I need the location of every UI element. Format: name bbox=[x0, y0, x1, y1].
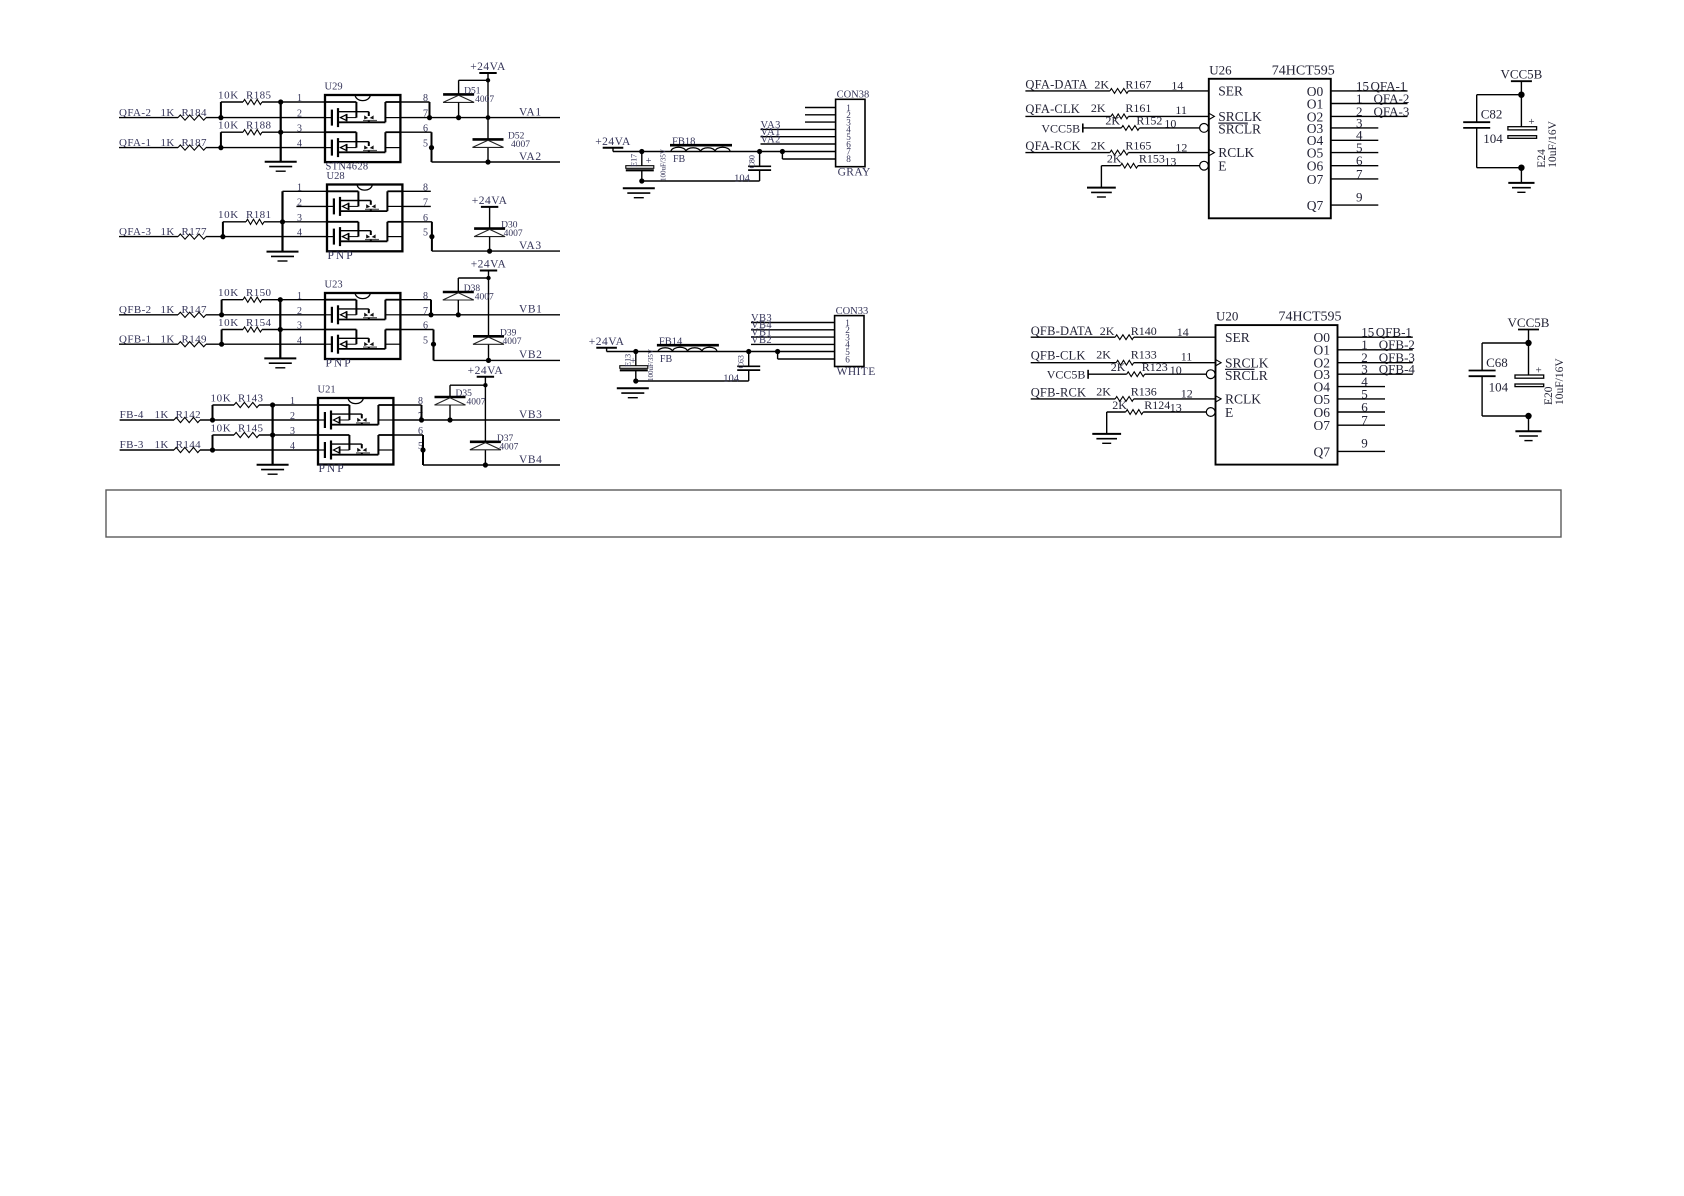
svg-text:4: 4 bbox=[290, 441, 295, 452]
svg-text:+24VA: +24VA bbox=[589, 336, 625, 348]
svg-text:2K: 2K bbox=[1094, 78, 1109, 92]
wire +24VA rail bbox=[488, 271, 490, 337]
svg-text:10uF/16V: 10uF/16V bbox=[1554, 358, 1566, 405]
svg-text:R123: R123 bbox=[1142, 360, 1168, 374]
ground bbox=[265, 161, 297, 163]
wire branch to upper diode bbox=[459, 79, 488, 81]
svg-text:2: 2 bbox=[297, 198, 302, 209]
svg-text:E17: E17 bbox=[629, 154, 638, 167]
svg-text:4007: 4007 bbox=[499, 442, 518, 452]
svg-text:R143: R143 bbox=[238, 392, 264, 404]
inverter bubble SRCLR bbox=[1200, 124, 1209, 133]
svg-text:3: 3 bbox=[297, 321, 302, 332]
svg-text:+24VA: +24VA bbox=[471, 259, 507, 271]
capacitor E13 100uF/35V electrolytic bbox=[635, 352, 637, 366]
svg-text:R187: R187 bbox=[182, 137, 208, 149]
wire main bbox=[613, 151, 836, 153]
junction bbox=[639, 178, 644, 183]
wire pin6 stub bbox=[393, 434, 423, 436]
svg-text:11: 11 bbox=[1181, 349, 1193, 363]
svg-text:R165: R165 bbox=[1125, 138, 1151, 152]
diode D30 bbox=[474, 227, 505, 230]
resistor R184 1K bbox=[119, 117, 178, 119]
capacitor C63 104 bbox=[746, 349, 751, 354]
wire riser bbox=[221, 330, 223, 345]
inverter bubble E bbox=[1200, 161, 1209, 170]
wire diode to output bbox=[449, 405, 451, 420]
junction bbox=[1525, 340, 1531, 346]
capacitor C68 104 bbox=[1482, 342, 1528, 344]
wire pin8 stub bbox=[400, 299, 431, 301]
ground bbox=[617, 387, 649, 389]
svg-text:R184: R184 bbox=[182, 107, 208, 119]
wire bottom bbox=[1477, 167, 1522, 169]
junction bbox=[280, 219, 285, 224]
mosfet channel internals bbox=[318, 404, 349, 406]
svg-text:1: 1 bbox=[297, 182, 302, 193]
svg-text:E: E bbox=[1218, 159, 1226, 174]
ground bbox=[1087, 187, 1116, 189]
svg-text:10K: 10K bbox=[211, 422, 232, 434]
svg-text:4007: 4007 bbox=[503, 337, 522, 347]
wire riser bbox=[220, 102, 222, 118]
svg-text:VB1: VB1 bbox=[519, 304, 543, 316]
wire bbox=[1338, 336, 1413, 338]
svg-text:R167: R167 bbox=[1125, 78, 1151, 92]
resistor R177 1K bbox=[119, 236, 178, 238]
ground bus bbox=[280, 102, 282, 162]
svg-text:2: 2 bbox=[297, 109, 302, 120]
junction bbox=[219, 342, 224, 347]
junction bbox=[639, 149, 644, 154]
junction bbox=[220, 234, 225, 239]
wire pin8 stub bbox=[402, 190, 430, 192]
mosfet channel internals bbox=[325, 101, 356, 103]
IC body U21 bbox=[318, 398, 393, 465]
junction bbox=[633, 378, 638, 383]
wire drop to lower output bbox=[431, 148, 433, 162]
mosfet channel internals bbox=[318, 434, 349, 436]
svg-text:10K: 10K bbox=[218, 287, 239, 299]
junction bbox=[219, 312, 224, 317]
junction bbox=[278, 297, 283, 302]
junction bbox=[1518, 165, 1524, 171]
svg-text:VA3: VA3 bbox=[519, 240, 542, 252]
svg-text:9: 9 bbox=[1361, 436, 1368, 451]
wire tie 8-7 bbox=[430, 300, 432, 315]
capacitor C80 104 bbox=[757, 149, 762, 154]
svg-text:4007: 4007 bbox=[504, 229, 523, 239]
wire to ground bbox=[1100, 166, 1102, 188]
svg-text:+24VA: +24VA bbox=[470, 61, 506, 73]
svg-text:4: 4 bbox=[297, 335, 302, 346]
svg-text:104: 104 bbox=[723, 374, 740, 385]
junction bbox=[1525, 413, 1531, 419]
wire bbox=[1331, 115, 1408, 117]
svg-text:1: 1 bbox=[297, 93, 302, 104]
svg-text:O7: O7 bbox=[1307, 172, 1324, 187]
svg-text:QFB-RCK: QFB-RCK bbox=[1031, 385, 1087, 399]
svg-text:74HCT595: 74HCT595 bbox=[1279, 310, 1342, 325]
ground bbox=[1508, 182, 1534, 184]
wire pin6 stub bbox=[400, 329, 433, 331]
svg-text:2K: 2K bbox=[1091, 101, 1106, 115]
svg-text:1: 1 bbox=[290, 396, 295, 407]
wire drop to lower output bbox=[422, 450, 424, 465]
svg-text:VB4: VB4 bbox=[519, 454, 543, 466]
wire drop to lower output bbox=[431, 237, 433, 252]
svg-text:2K: 2K bbox=[1105, 114, 1120, 128]
wire riser bbox=[212, 435, 214, 450]
wire bottom bbox=[642, 180, 760, 182]
connector stub pin 3 bbox=[805, 121, 836, 123]
wire bottom bbox=[636, 380, 749, 382]
wire tie 8-7 bbox=[421, 405, 423, 420]
svg-text:C80: C80 bbox=[748, 155, 757, 168]
svg-text:U23: U23 bbox=[325, 280, 343, 291]
title frame (empty) bbox=[106, 490, 1561, 537]
svg-text:5: 5 bbox=[423, 228, 428, 239]
wire branch to upper diode bbox=[458, 277, 488, 279]
wire bbox=[1331, 90, 1408, 92]
mosfet channel internals bbox=[327, 190, 358, 192]
ground bus bbox=[279, 300, 281, 359]
svg-text:4: 4 bbox=[297, 228, 302, 239]
svg-text:+24VA: +24VA bbox=[468, 365, 504, 377]
node VB4 bbox=[423, 464, 560, 466]
junction bbox=[210, 447, 215, 452]
svg-text:VA1: VA1 bbox=[519, 106, 542, 118]
svg-text:10K: 10K bbox=[218, 317, 239, 329]
svg-text:+24VA: +24VA bbox=[472, 195, 508, 207]
wire pin1 bbox=[283, 190, 328, 192]
IC body U28 bbox=[327, 185, 402, 252]
junction bbox=[483, 462, 488, 467]
svg-text:9: 9 bbox=[1356, 189, 1363, 204]
wire rail bbox=[1520, 81, 1522, 127]
ground bbox=[623, 187, 655, 189]
wire rail bbox=[1528, 330, 1530, 376]
svg-text:VCC5B: VCC5B bbox=[1047, 368, 1086, 382]
svg-text:+: + bbox=[1528, 116, 1534, 128]
wire riser bbox=[220, 132, 222, 147]
svg-text:4007: 4007 bbox=[475, 293, 494, 303]
svg-text:11: 11 bbox=[1175, 103, 1187, 117]
mosfet channel internals bbox=[325, 329, 356, 331]
svg-text:C63: C63 bbox=[737, 355, 746, 368]
svg-text:104: 104 bbox=[1489, 380, 1509, 395]
wire pin6 stub bbox=[400, 131, 431, 133]
wire diode to output bbox=[458, 102, 460, 117]
mosfet channel internals bbox=[325, 299, 356, 301]
svg-text:R136: R136 bbox=[1131, 385, 1157, 399]
wire tie 8-7 bbox=[429, 102, 431, 118]
svg-text:4007: 4007 bbox=[475, 95, 494, 105]
svg-text:PNP: PNP bbox=[326, 358, 353, 370]
svg-text:4007: 4007 bbox=[511, 140, 530, 150]
junction bbox=[218, 115, 223, 120]
connector stub pin 2 bbox=[805, 114, 836, 116]
junction bbox=[278, 99, 283, 104]
svg-text:2K: 2K bbox=[1100, 324, 1115, 338]
svg-text:3: 3 bbox=[297, 213, 302, 224]
svg-text:R153: R153 bbox=[1139, 152, 1165, 166]
resistor R144 1K bbox=[120, 449, 174, 451]
node VA1 bbox=[400, 117, 560, 119]
ground bus bbox=[281, 191, 283, 251]
ground bus bbox=[272, 405, 274, 465]
resistor R147 1K bbox=[119, 314, 178, 316]
svg-text:FB: FB bbox=[660, 354, 673, 365]
svg-text:C82: C82 bbox=[1481, 107, 1503, 122]
svg-text:Q7: Q7 bbox=[1314, 444, 1331, 459]
svg-text:3: 3 bbox=[290, 426, 295, 437]
svg-text:U21: U21 bbox=[318, 385, 336, 396]
junction bbox=[210, 417, 215, 422]
svg-text:10uF/16V: 10uF/16V bbox=[1547, 120, 1559, 167]
svg-text:8: 8 bbox=[846, 154, 851, 164]
svg-text:6: 6 bbox=[845, 354, 850, 364]
svg-text:U29: U29 bbox=[325, 82, 343, 93]
junction bbox=[270, 402, 275, 407]
svg-text:R142: R142 bbox=[176, 409, 201, 421]
svg-text:10K: 10K bbox=[211, 392, 232, 404]
junction bbox=[487, 249, 492, 254]
wire riser bbox=[212, 405, 214, 420]
svg-text:E: E bbox=[1225, 405, 1233, 420]
ground bbox=[264, 357, 296, 359]
wire +24VA rail bbox=[487, 73, 489, 139]
svg-text:R147: R147 bbox=[182, 304, 208, 316]
resistor R187 1K bbox=[119, 147, 178, 149]
wire +24VA rail bbox=[489, 207, 491, 229]
svg-text:O7: O7 bbox=[1314, 418, 1331, 433]
svg-text:10K: 10K bbox=[218, 89, 239, 101]
svg-text:QFB-DATA: QFB-DATA bbox=[1031, 324, 1093, 338]
resistor R149 1K bbox=[119, 343, 178, 345]
wire +24VA rail bbox=[484, 377, 486, 442]
svg-text:VCC5B: VCC5B bbox=[1041, 121, 1080, 135]
diode D52 bbox=[473, 138, 504, 141]
svg-text:R185: R185 bbox=[246, 89, 272, 101]
svg-text:VA2: VA2 bbox=[519, 151, 542, 163]
wire tie 6-5 bbox=[431, 132, 433, 147]
svg-text:R152: R152 bbox=[1136, 114, 1162, 128]
svg-text:U20: U20 bbox=[1216, 309, 1238, 324]
svg-text:VCC5B: VCC5B bbox=[1508, 315, 1550, 330]
svg-text:10K: 10K bbox=[218, 209, 239, 221]
wire to last pin bbox=[781, 152, 783, 160]
svg-text:5: 5 bbox=[423, 335, 428, 346]
svg-text:SER: SER bbox=[1225, 330, 1250, 345]
junction bbox=[270, 432, 275, 437]
svg-text:4007: 4007 bbox=[467, 398, 486, 408]
svg-text:R150: R150 bbox=[246, 287, 272, 299]
svg-text:VB2: VB2 bbox=[519, 349, 543, 361]
svg-text:3: 3 bbox=[297, 123, 302, 134]
svg-text:10K: 10K bbox=[218, 120, 239, 132]
diode D51 bbox=[443, 93, 474, 96]
wire to ground bbox=[1528, 416, 1530, 431]
svg-text:QFA-CLK: QFA-CLK bbox=[1025, 102, 1080, 116]
svg-text:WHITE: WHITE bbox=[837, 366, 876, 378]
svg-text:R124: R124 bbox=[1144, 398, 1170, 412]
wire pin8 stub bbox=[400, 101, 429, 103]
resistor R142 1K bbox=[120, 419, 174, 421]
svg-text:+24VA: +24VA bbox=[595, 136, 631, 148]
svg-text:104: 104 bbox=[1483, 131, 1503, 146]
svg-text:R177: R177 bbox=[182, 226, 208, 238]
ground bbox=[267, 251, 299, 253]
wire to ground bbox=[1106, 412, 1108, 434]
wire bbox=[1338, 349, 1413, 351]
junction bbox=[486, 358, 491, 363]
svg-text:R144: R144 bbox=[176, 439, 202, 451]
diode D35 bbox=[435, 396, 466, 399]
IC body U23 bbox=[325, 293, 400, 359]
svg-text:VCC5B: VCC5B bbox=[1500, 67, 1542, 82]
svg-text:QFB-CLK: QFB-CLK bbox=[1031, 349, 1086, 363]
junction bbox=[1518, 92, 1524, 98]
svg-text:2: 2 bbox=[290, 411, 295, 422]
ground bbox=[257, 464, 289, 466]
svg-text:104: 104 bbox=[734, 174, 751, 185]
svg-text:R149: R149 bbox=[182, 333, 208, 345]
svg-text:SRCLR: SRCLR bbox=[1218, 122, 1261, 137]
junction bbox=[775, 349, 780, 354]
svg-text:R154: R154 bbox=[246, 317, 272, 329]
svg-text:R140: R140 bbox=[1131, 324, 1157, 338]
svg-text:100uF/35V: 100uF/35V bbox=[647, 349, 655, 381]
svg-text:R145: R145 bbox=[238, 422, 264, 434]
svg-text:U28: U28 bbox=[327, 171, 345, 182]
inverter bubble SRCLR bbox=[1206, 370, 1215, 379]
wire bbox=[1338, 362, 1413, 364]
svg-text:2: 2 bbox=[297, 306, 302, 317]
wire pin8 stub bbox=[393, 404, 421, 406]
node VA2 bbox=[432, 161, 561, 163]
svg-text:PNP: PNP bbox=[328, 250, 355, 262]
node VB1 bbox=[400, 314, 560, 316]
svg-text:2K: 2K bbox=[1111, 360, 1126, 374]
svg-text:100uF/35V: 100uF/35V bbox=[660, 149, 668, 181]
capacitor E17 100uF/35V electrolytic bbox=[641, 152, 643, 166]
svg-text:1: 1 bbox=[297, 291, 302, 302]
wire bbox=[1338, 373, 1413, 375]
junction bbox=[780, 149, 785, 154]
wire to last pin bbox=[777, 352, 779, 360]
junction bbox=[633, 349, 638, 354]
svg-text:SRCLR: SRCLR bbox=[1225, 368, 1268, 383]
svg-text:QFA-RCK: QFA-RCK bbox=[1025, 139, 1080, 153]
diode D37 bbox=[470, 440, 501, 443]
wire pin2 stub bbox=[296, 205, 327, 207]
diode D39 bbox=[473, 335, 504, 338]
capacitor E20 10uF/16V electrolytic bbox=[1515, 375, 1544, 378]
svg-text:4: 4 bbox=[297, 139, 302, 150]
svg-text:2K: 2K bbox=[1096, 348, 1111, 362]
wire bottom bbox=[1482, 415, 1528, 417]
junction bbox=[278, 327, 283, 332]
svg-text:PNP: PNP bbox=[319, 463, 346, 475]
svg-text:2K: 2K bbox=[1107, 152, 1122, 166]
ground bbox=[1515, 430, 1541, 432]
diode D38 bbox=[443, 291, 474, 294]
svg-text:Q7: Q7 bbox=[1307, 198, 1324, 213]
svg-text:FB: FB bbox=[673, 154, 686, 165]
wire riser bbox=[221, 300, 223, 315]
svg-text:VB3: VB3 bbox=[519, 409, 543, 421]
svg-text:+: + bbox=[1536, 365, 1542, 377]
wire riser bbox=[222, 222, 224, 237]
wire drop to lower output bbox=[433, 344, 435, 360]
node VB3 bbox=[393, 419, 560, 421]
junction bbox=[485, 159, 490, 164]
svg-text:U26: U26 bbox=[1209, 62, 1232, 77]
svg-text:E13: E13 bbox=[623, 354, 632, 367]
inverter bubble E bbox=[1206, 408, 1215, 417]
mosfet channel internals bbox=[327, 221, 358, 223]
wire diode to output bbox=[457, 300, 459, 315]
node VB2 bbox=[434, 359, 561, 361]
wire pin7 stub bbox=[402, 205, 430, 207]
capacitor E24 10uF/16V electrolytic bbox=[1508, 127, 1537, 130]
svg-text:74HCT595: 74HCT595 bbox=[1272, 63, 1335, 78]
wire tie 6-5 bbox=[433, 330, 435, 345]
IC body U29 bbox=[325, 95, 400, 162]
ground bbox=[1092, 433, 1121, 435]
wire to ground bbox=[1520, 168, 1522, 183]
wire tie 6-5 bbox=[422, 435, 424, 450]
node VA3 bbox=[432, 250, 560, 252]
wire main bbox=[607, 351, 835, 353]
capacitor C82 104 bbox=[1477, 94, 1522, 96]
svg-text:+: + bbox=[646, 156, 652, 167]
svg-text:R188: R188 bbox=[246, 120, 272, 132]
svg-text:2K: 2K bbox=[1096, 385, 1111, 399]
junction bbox=[218, 145, 223, 150]
wire branch to upper diode bbox=[450, 384, 485, 386]
junction rail/VA1 bbox=[486, 115, 491, 120]
svg-text:2K: 2K bbox=[1091, 138, 1106, 152]
svg-text:GRAY: GRAY bbox=[838, 166, 871, 178]
wire pin6 stub bbox=[402, 221, 432, 223]
wire bbox=[1331, 103, 1408, 105]
wire tie 6-5 bbox=[431, 222, 433, 237]
svg-text:5: 5 bbox=[423, 139, 428, 150]
junction bbox=[278, 130, 283, 135]
svg-text:2K: 2K bbox=[1112, 398, 1127, 412]
svg-text:QFA-DATA: QFA-DATA bbox=[1025, 78, 1087, 92]
svg-text:SER: SER bbox=[1218, 84, 1243, 99]
svg-text:R181: R181 bbox=[246, 209, 271, 221]
mosfet channel internals bbox=[325, 131, 356, 133]
svg-text:C68: C68 bbox=[1486, 355, 1508, 370]
connector stub pin 1 bbox=[805, 107, 836, 109]
